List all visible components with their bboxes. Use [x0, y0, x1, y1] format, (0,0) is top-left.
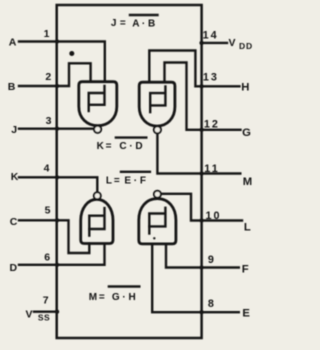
- svg-text:D: D: [10, 262, 18, 274]
- svg-text:7: 7: [43, 294, 49, 306]
- svg-text:L: L: [244, 222, 251, 234]
- svg-text:3: 3: [46, 115, 52, 127]
- svg-text:6: 6: [44, 252, 50, 264]
- svg-text:E: E: [242, 308, 250, 320]
- svg-text:K: K: [11, 171, 19, 183]
- svg-text:12: 12: [204, 118, 220, 130]
- svg-text:V: V: [228, 37, 235, 49]
- svg-text:B: B: [8, 81, 16, 93]
- svg-text:M: M: [89, 292, 97, 303]
- svg-text:M: M: [243, 176, 252, 188]
- svg-text:H: H: [241, 82, 249, 94]
- svg-text:DD: DD: [239, 41, 253, 51]
- svg-text:K: K: [97, 141, 105, 152]
- svg-text:10: 10: [205, 210, 221, 222]
- svg-text:11: 11: [204, 163, 219, 175]
- svg-text:8: 8: [208, 298, 214, 310]
- svg-text:14: 14: [203, 30, 219, 42]
- svg-text:=: =: [114, 176, 120, 187]
- svg-text:13: 13: [203, 72, 219, 84]
- svg-text:C · D: C · D: [119, 141, 142, 152]
- svg-text:G: G: [242, 127, 251, 139]
- svg-text:F: F: [242, 264, 249, 276]
- svg-text:SS: SS: [38, 313, 50, 323]
- svg-text:L: L: [106, 176, 112, 187]
- svg-text:9: 9: [208, 254, 214, 266]
- svg-text:E · F: E · F: [124, 176, 146, 187]
- svg-text:A · B: A · B: [132, 18, 155, 29]
- svg-text:J: J: [111, 18, 117, 29]
- svg-text:=: =: [120, 18, 126, 29]
- svg-text:2: 2: [45, 71, 51, 83]
- svg-text:=: =: [99, 292, 105, 303]
- svg-text:A: A: [9, 37, 17, 49]
- svg-text:4: 4: [44, 163, 50, 175]
- svg-text:G · H: G · H: [112, 292, 136, 303]
- svg-text:J: J: [11, 124, 17, 136]
- svg-text:C: C: [10, 216, 18, 228]
- svg-text:5: 5: [45, 204, 51, 216]
- svg-text:=: =: [106, 141, 112, 152]
- svg-text:1: 1: [44, 28, 50, 40]
- svg-text:V: V: [25, 308, 32, 320]
